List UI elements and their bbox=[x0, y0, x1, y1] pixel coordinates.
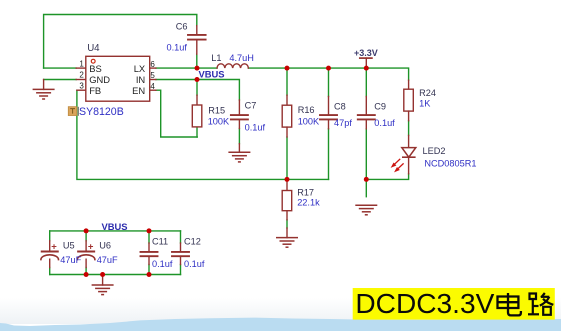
svg-text:22.1k: 22.1k bbox=[297, 198, 320, 208]
svg-text:NCD0805R1: NCD0805R1 bbox=[424, 158, 476, 168]
svg-text:0.1uf: 0.1uf bbox=[152, 259, 173, 269]
svg-text:DCDC3.3V: DCDC3.3V bbox=[355, 288, 494, 319]
svg-text:C8: C8 bbox=[334, 102, 346, 112]
svg-text:1: 1 bbox=[79, 60, 84, 69]
svg-text:47uF: 47uF bbox=[97, 255, 118, 265]
svg-text:4.7uH: 4.7uH bbox=[229, 53, 254, 63]
svg-text:VBUS: VBUS bbox=[102, 221, 128, 232]
svg-text:SY8120B: SY8120B bbox=[79, 106, 124, 118]
svg-text:LX: LX bbox=[134, 63, 146, 74]
svg-text:C7: C7 bbox=[245, 101, 257, 111]
svg-text:GND: GND bbox=[89, 74, 110, 85]
svg-text:+: + bbox=[88, 242, 94, 253]
svg-text:FB: FB bbox=[89, 85, 101, 96]
svg-text:U5: U5 bbox=[63, 240, 75, 250]
svg-text:6: 6 bbox=[150, 60, 155, 69]
svg-text:1K: 1K bbox=[419, 99, 431, 109]
svg-text:EN: EN bbox=[132, 85, 145, 96]
svg-text:100K: 100K bbox=[208, 117, 230, 127]
svg-text:C12: C12 bbox=[184, 237, 201, 247]
svg-text:0.1uf: 0.1uf bbox=[184, 259, 205, 269]
svg-text:+3.3V: +3.3V bbox=[354, 48, 378, 58]
svg-text:U4: U4 bbox=[87, 43, 100, 54]
svg-text:0.1uf: 0.1uf bbox=[245, 123, 266, 133]
svg-text:C11: C11 bbox=[152, 237, 168, 247]
svg-text:C6: C6 bbox=[176, 22, 188, 32]
svg-text:4: 4 bbox=[150, 82, 155, 91]
svg-text:47uF: 47uF bbox=[60, 255, 81, 265]
svg-text:3: 3 bbox=[79, 82, 84, 91]
svg-text:C9: C9 bbox=[374, 102, 386, 112]
svg-text:0.1uf: 0.1uf bbox=[374, 118, 395, 128]
svg-text:2: 2 bbox=[79, 71, 84, 80]
svg-text:IN: IN bbox=[136, 74, 145, 85]
svg-text:L1: L1 bbox=[211, 53, 221, 63]
svg-text:R24: R24 bbox=[419, 88, 436, 98]
svg-text:0.1uf: 0.1uf bbox=[167, 42, 188, 52]
svg-text:U6: U6 bbox=[99, 240, 111, 250]
svg-text:47pf: 47pf bbox=[334, 118, 352, 128]
svg-text:R16: R16 bbox=[298, 105, 315, 115]
svg-text:+: + bbox=[51, 242, 57, 253]
svg-text:VBUS: VBUS bbox=[199, 69, 225, 80]
svg-text:5: 5 bbox=[150, 71, 155, 80]
svg-text:100K: 100K bbox=[298, 117, 320, 127]
svg-text:R15: R15 bbox=[208, 106, 225, 116]
svg-text:R17: R17 bbox=[297, 188, 314, 198]
svg-text:LED2: LED2 bbox=[423, 146, 446, 156]
svg-text:BS: BS bbox=[89, 63, 102, 74]
